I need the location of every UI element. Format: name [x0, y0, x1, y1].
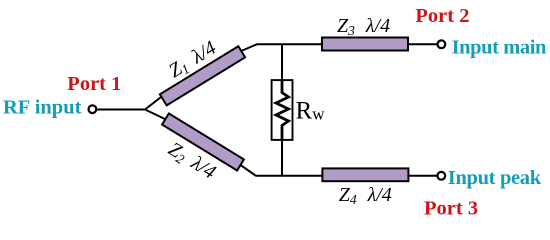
svg-text:RF input: RF input: [3, 97, 82, 119]
svg-text:Input main: Input main: [452, 37, 547, 59]
svg-text:Port 3: Port 3: [424, 198, 478, 220]
svg-text:Port 1: Port 1: [67, 73, 121, 95]
svg-text:Input peak: Input peak: [448, 167, 542, 189]
svg-text:Port 2: Port 2: [415, 5, 469, 27]
